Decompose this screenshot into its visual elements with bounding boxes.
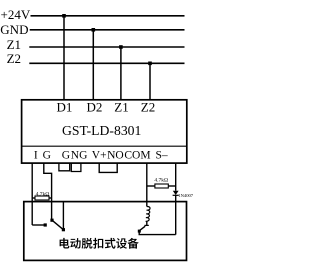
svg-text:NO: NO — [107, 150, 124, 162]
wire G jog down — [44, 163, 52, 220]
svg-text:G: G — [43, 150, 51, 162]
armature dot — [138, 230, 141, 233]
resistor R2 right lead — [168, 185, 175, 187]
svg-text:GND: GND — [0, 22, 28, 37]
wire Z2 to module Z2 — [149, 63, 151, 100]
svg-text:I: I — [34, 150, 38, 162]
resistor R1 right lead — [49, 197, 52, 199]
coil bottom stub — [146, 221, 148, 225]
junction dot on +24V — [62, 14, 66, 18]
wire G2 pivot up to device box — [62, 202, 64, 230]
pin I label — [34, 150, 38, 162]
wire GND bus — [30, 29, 185, 31]
armature blade diagonal — [139, 226, 145, 231]
module U1 GST-LD-8301 box — [22, 100, 187, 163]
svg-text:4.7kΩ: 4.7kΩ — [154, 178, 168, 184]
svg-text:G: G — [62, 150, 70, 162]
junction dot on GND — [92, 28, 96, 32]
pin V+ label — [92, 150, 107, 162]
svg-text:Z1: Z1 — [114, 100, 128, 115]
diode D3 1N4007 — [173, 191, 179, 196]
net +24V label — [1, 7, 31, 22]
svg-text:D2: D2 — [87, 100, 103, 115]
svg-text:Z1: Z1 — [7, 37, 21, 52]
switch pivot dot — [62, 228, 65, 231]
svg-text:4.7kΩ: 4.7kΩ — [36, 191, 50, 197]
terminal lug G2 — [59, 163, 70, 171]
svg-text:NG: NG — [71, 150, 88, 162]
junction dot on Z1 — [119, 45, 123, 49]
wire I horizontal to switch contact — [32, 224, 45, 226]
svg-text:V+: V+ — [92, 150, 107, 162]
wire +24V bus — [31, 15, 185, 17]
net Z1 label — [7, 37, 21, 52]
device box 电动脱扣式设备 — [24, 202, 187, 261]
armature tick bar — [144, 224, 148, 226]
pin NO label — [107, 150, 124, 162]
switch contact dot middle — [50, 219, 53, 222]
pin D1 label — [57, 100, 73, 115]
pin Z1 label — [114, 100, 128, 115]
wire I down — [31, 163, 33, 225]
module name GST-LD-8301 — [62, 123, 141, 138]
armature dot stub to wire — [138, 231, 140, 235]
net GND label — [0, 22, 28, 37]
wire Z1 to module Z1 — [120, 47, 122, 101]
junction dot on Z2 — [148, 62, 152, 66]
wire GND to D2 — [92, 30, 94, 101]
wire diode down — [175, 195, 177, 234]
module terminal strip separator — [22, 145, 187, 147]
terminal lug NG — [71, 163, 81, 171]
resistor R1 value 4.7k — [36, 191, 50, 197]
resistor R1 left lead — [32, 197, 35, 199]
svg-text:Z2: Z2 — [141, 100, 155, 115]
pin G label — [43, 150, 51, 162]
resistor R2 value 4.7k — [154, 178, 168, 184]
pin Z2 label — [141, 100, 155, 115]
pin COM label — [124, 150, 150, 162]
wire COM down to coil — [146, 163, 148, 206]
resistor R2 lead from COM wire — [147, 185, 155, 187]
wire Z1 bus — [29, 46, 184, 48]
svg-text:D1: D1 — [57, 100, 73, 115]
wire +24V to D1 — [63, 16, 65, 101]
svg-text:Z2: Z2 — [7, 51, 21, 66]
switch contact dot left — [44, 223, 47, 226]
svg-text:GST-LD-8301: GST-LD-8301 — [62, 123, 141, 138]
pin D2 label — [87, 100, 103, 115]
svg-text:1N4007: 1N4007 — [178, 193, 194, 198]
device label 电动脱扣式设备 — [60, 238, 139, 249]
resistor R2 body — [155, 184, 168, 188]
net Z2 label — [7, 51, 21, 66]
svg-text:+24V: +24V — [1, 7, 31, 22]
svg-text:COM: COM — [124, 150, 150, 162]
wire Z2 bus — [29, 62, 184, 64]
svg-text:S–: S– — [156, 150, 168, 162]
pin S- label — [156, 150, 168, 162]
resistor R1 body — [35, 196, 49, 200]
coil L1 — [146, 206, 150, 221]
jumper V+ to NO — [99, 163, 117, 172]
pin G2 label — [62, 150, 70, 162]
pin NG label — [71, 150, 88, 162]
diode label 1N4007 — [178, 193, 194, 198]
wire S- down — [175, 163, 177, 190]
switch K1 blade — [52, 220, 63, 230]
wire bottom horizontal to coil blade — [139, 234, 176, 236]
